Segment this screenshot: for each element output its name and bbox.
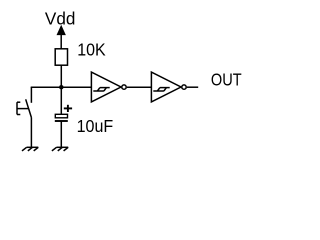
wire output (187, 86, 198, 88)
svg-text:10uF: 10uF (77, 116, 114, 136)
wire switch top terminal (30, 87, 32, 103)
inverter U2 triangle (151, 72, 181, 102)
resistor R1 (55, 49, 67, 65)
inverter U1 output bubble (122, 85, 126, 89)
wire bus horizontal (31, 86, 92, 88)
wire switch bottom (30, 118, 32, 148)
ground under capacitor (52, 147, 68, 151)
svg-text:OUT: OUT (211, 69, 242, 89)
svg-text:Vdd: Vdd (45, 9, 76, 29)
wire cap bottom (60, 121, 62, 147)
power symbol Vdd arrow (57, 26, 65, 49)
ground under switch (22, 147, 38, 151)
wire resistor to bus (60, 65, 62, 87)
wire cap top (60, 87, 62, 114)
inverter U1 hysteresis symbol (93, 88, 109, 91)
wire U1 to U2 (127, 86, 151, 88)
svg-text:10K: 10K (77, 40, 106, 60)
capacitor C1 negative plate (55, 120, 68, 122)
inverter U1 triangle (91, 72, 121, 102)
capacitor C1 plus sign (64, 105, 72, 112)
switch S1 lever (26, 99, 32, 117)
switch S1 pushbutton actuator (17, 102, 28, 114)
inverter U2 output bubble (182, 85, 186, 89)
capacitor C1 positive plate (55, 114, 67, 118)
inverter U2 hysteresis symbol (153, 88, 169, 91)
node junction dot (59, 85, 64, 90)
